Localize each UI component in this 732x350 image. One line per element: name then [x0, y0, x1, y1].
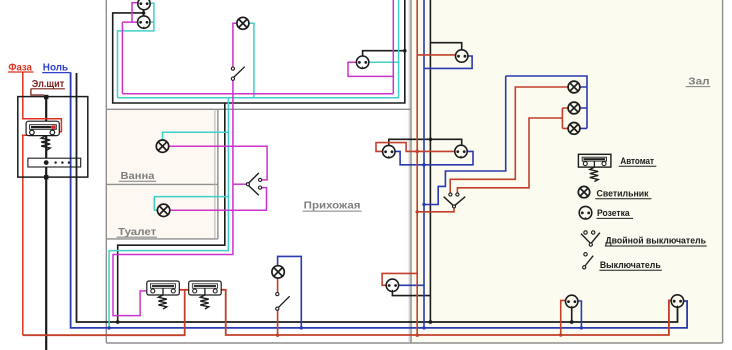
- socket top-left lower: [138, 16, 150, 28]
- wall: toilet bottom: [106, 238, 218, 240]
- wire: black link between top-left sockets: [143, 10, 145, 17]
- wire: black branch to Зал top socket: [430, 43, 461, 51]
- circuit breaker in panel: [26, 121, 59, 135]
- wire: cyan riser bath wall down to blue bus: [109, 98, 228, 328]
- wire: red breaker2 to bus continuing right: [222, 290, 672, 335]
- wire: cyan top-left socket loop: [118, 3, 154, 98]
- lamp top room: [237, 17, 249, 29]
- wire: cyan stub top-room right socket: [369, 61, 399, 63]
- wall: plan bottom: [106, 342, 722, 344]
- wire: red feed Зал lamp2+3: [457, 108, 568, 193]
- svg-text:Туалет: Туалет: [118, 227, 156, 238]
- wire: black phase main drop (panel to image bottom): [45, 97, 47, 350]
- wire: blue staircase from lamps to wall riser: [424, 76, 506, 205]
- socket top room right: [356, 56, 368, 68]
- svg-text:Светильник: Светильник: [597, 189, 649, 199]
- svg-text:Прихожая: Прихожая: [304, 201, 361, 212]
- lamp toilet: [157, 204, 169, 216]
- wall: plan right: [722, 0, 724, 343]
- wire: red double switch return to riser: [417, 208, 454, 212]
- wire: cyan riser right of top room: [398, 0, 400, 98]
- room fill: Ванна+Туалет: [106, 109, 218, 239]
- wire: red hall lamp to switch: [277, 278, 279, 335]
- svg-text:Зал: Зал: [688, 76, 709, 87]
- socket Зал middle: [455, 145, 467, 157]
- wire: blue run between middle sockets: [395, 151, 473, 164]
- wire: cyan bath lamp feed: [163, 132, 229, 140]
- circuit breaker hallway 2: [189, 281, 222, 309]
- wire: blue hall bottom socket to riser: [398, 284, 424, 286]
- wire: black hall bottom socket to riser: [392, 291, 430, 295]
- legend: Розетка symbol: [579, 206, 592, 219]
- wire: blue lamp stubs: [580, 87, 587, 128]
- wire: cyan toilet lamp feed: [154, 197, 228, 211]
- wire: red phase leader into panel breaker: [23, 72, 62, 132]
- lamp bath: [156, 140, 168, 152]
- wire: black riser bath wall down to bus: [118, 103, 225, 322]
- wall: plan left: [105, 0, 107, 343]
- wire: black neutral from panel + black bus: [77, 73, 678, 322]
- trip coil of panel breaker: [41, 136, 50, 151]
- wire: black stub top-room right socket to riser: [363, 51, 405, 57]
- legend: Выключатель symbol: [583, 253, 594, 269]
- wire: blue Зал top socket loop: [424, 56, 472, 68]
- wire: red bottom socket1 feed: [561, 300, 566, 335]
- wire: magenta top-left socket loop: [122, 3, 138, 94]
- wall: bath/toilet divider: [106, 183, 218, 185]
- socket Зал top: [456, 50, 468, 62]
- wire: blue Зал lamps bus: [506, 76, 587, 128]
- socket hallway bottom right: [386, 279, 398, 291]
- wall: top room bottom: [106, 108, 411, 110]
- wire: red feed Зал lamp1 to switch contact: [450, 87, 568, 193]
- svg-text:Выключатель: Выключатель: [600, 260, 661, 270]
- terminal strip in panel: [28, 158, 81, 167]
- lamp Зал 2: [568, 102, 580, 114]
- circuit breaker hallway 1: [147, 281, 180, 309]
- svg-text:Ноль: Ноль: [43, 62, 68, 73]
- wire: cyan drop from top room lamp: [249, 23, 254, 98]
- svg-text:Двойной выключатель: Двойной выключатель: [605, 236, 706, 246]
- lamp Зал 1: [568, 81, 580, 93]
- svg-text:Ванна: Ванна: [121, 171, 155, 182]
- wire: black riser Зал wall: [429, 0, 431, 322]
- wire: magenta top room bottom run: [122, 93, 393, 95]
- wire: dark red leader from Эл.щит label to panel: [31, 89, 44, 95]
- wire: black run between middle sockets: [389, 139, 462, 146]
- wire: magenta feed to double switch common: [233, 183, 247, 185]
- wire: red riser Зал wall: [416, 0, 418, 335]
- lamp Зал 3: [568, 122, 580, 134]
- switch top room (for lamp): [231, 67, 244, 81]
- socket top-left upper: [138, 0, 150, 10]
- socket hallway middle: [383, 145, 395, 157]
- lamp hallway: [272, 266, 284, 278]
- legend: Автомат symbol: [578, 154, 611, 181]
- wire: cyan stub socket2: [150, 21, 154, 23]
- junction dots in panel: [44, 95, 48, 99]
- wire: magenta bath lamp to double switch upper contact: [169, 146, 267, 180]
- wire: red breaker output down left side: [23, 135, 30, 335]
- wire: red hall bottom socket to riser: [382, 273, 417, 285]
- panel box Эл.щит: [18, 97, 88, 178]
- room fill: Зал: [412, 0, 723, 343]
- wire: blue bottom socket1 stub: [578, 301, 582, 328]
- switch hallway: [276, 293, 290, 311]
- socket Зал bottom 2: [671, 295, 683, 307]
- wire: magenta top-room right socket loop: [348, 62, 393, 76]
- wire: blue hall lamp to bus: [278, 256, 302, 328]
- double switch Зал: [444, 193, 466, 208]
- legend: Светильник symbol: [578, 186, 589, 197]
- wire: black stub bottom socket1 to bus: [571, 307, 573, 322]
- wire: magenta top lamp to switch and down wall riser: [113, 23, 237, 315]
- svg-text:Автомат: Автомат: [620, 156, 654, 166]
- wire: magenta riser right of top room: [392, 0, 394, 94]
- wire: black top room loop (left riser + bottom run + right riser): [113, 0, 405, 103]
- wall: bath right inner line: [214, 109, 216, 239]
- wire: red bus from panel to breaker1: [23, 290, 189, 335]
- wire: blue neutral from panel + blue bus: [71, 72, 688, 328]
- svg-text:Розетка: Розетка: [597, 208, 631, 218]
- wall: hallway/Зал divider: [410, 0, 412, 343]
- wire: blue riser Зал wall: [423, 0, 425, 328]
- wire: red branch to Зал top socket: [417, 54, 455, 56]
- legend: Двойной выключатель symbol: [581, 231, 600, 246]
- socket Зал bottom 1: [566, 295, 578, 307]
- wire: red loop middle sockets: [376, 143, 455, 152]
- double switch bath/toilet (rotated): [246, 173, 261, 195]
- wire: magenta toilet lamp to double switch lower contact: [170, 188, 267, 211]
- wall: bath right: [217, 109, 219, 239]
- wire: cyan top room bottom run: [118, 97, 399, 99]
